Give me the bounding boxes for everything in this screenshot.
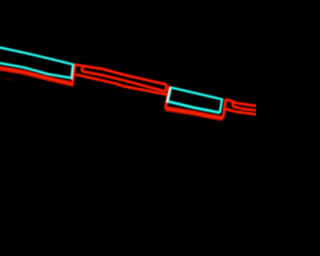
wire W2 bottom line [224,109,256,115]
resistor R2 cyan top and right edges [171,87,222,112]
wire W2 left stub [231,101,235,107]
cyan core layer [0,46,222,113]
wire W2 middle line [233,106,256,110]
resistor R2 cyan top and right edges [171,87,222,112]
resistor R1 red right edge / wire cap [72,65,75,85]
resistor R2 red shadow bottom [165,109,223,119]
resistor R1 cyan body [0,46,73,78]
ghost line faint [2,78,14,81]
resistor R1 red right edge / wire cap [72,65,75,85]
wire W1 middle line [82,71,166,91]
resistor R2 cyan bottom edge [168,87,220,112]
wire W1 left stub [82,67,83,71]
wire W1 right cap [166,85,167,92]
wire W1 left stub [82,67,83,71]
resistor R2 red left edge [165,86,169,109]
resistor R2 red right edge / wire cap [223,99,226,118]
resistor R1 red shadow bottom [0,67,74,84]
wire W2 left stub [232,101,234,107]
red glow layer [0,65,256,119]
resistor R1 cyan body [0,46,73,78]
wire W2 bottom line [224,109,256,115]
resistor R1 red shadow bottom [0,67,74,84]
resistor R2 red shadow bottom [165,109,223,119]
wire W1 right cap [166,85,167,92]
wire W1 bottom line [75,74,168,94]
red core layer [0,65,256,119]
wire W2 middle line [233,106,256,110]
wire W1 bottom line [75,74,168,94]
wire W2 top line [226,99,256,106]
cyan glow layer [0,46,222,113]
wire W1 middle line [82,71,166,91]
resistor R2 red right edge / wire cap [223,99,226,118]
resistor R2 cyan bottom edge [168,87,220,112]
resistor R2 red left edge [165,86,169,109]
wire W2 top line [226,99,256,106]
wire W1 top line [74,65,167,85]
wire W1 top line [74,65,167,85]
